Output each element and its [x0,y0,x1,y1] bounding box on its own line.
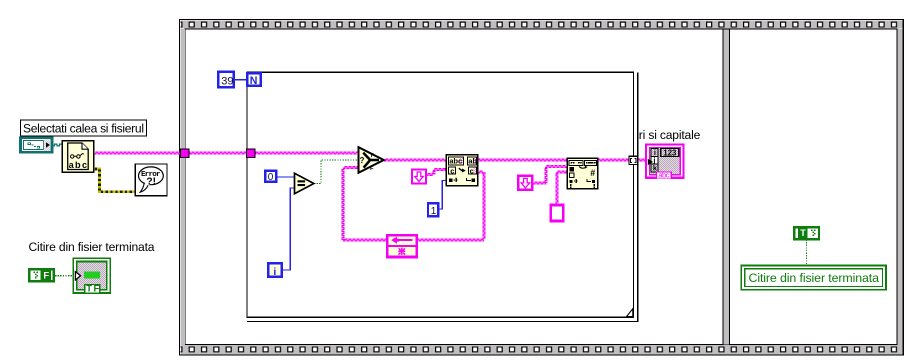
search and replace string function icon [567,158,597,188]
type-cast down-arrow node 2 [518,176,532,190]
wire: 0 constant to equal node [277,176,294,178]
wire: feedback loop bottom [343,239,484,241]
svg-text:123: 123 [663,148,677,157]
boolean indicator: Citire din fisier terminata (frame 2) [741,265,886,289]
svg-text:T: T [86,283,92,294]
for loop folded corner [627,309,633,317]
wire: i terminal to equal node [283,188,294,270]
wire: down-arrow 1 to replace substring [426,174,434,176]
svg-text:abc: abc [658,171,669,180]
simple error handler VI icon [135,164,167,196]
empty string constant [551,205,563,221]
for loop frame [247,72,638,321]
svg-text:c: c [450,166,454,175]
wire: F constant to local variable, green dotted [55,275,74,277]
svg-text:F: F [94,283,100,294]
svg-text:Citire din fisier terminata: Citire din fisier terminata [749,271,880,285]
svg-text:abc: abc [449,157,462,166]
svg-text:abc: abc [69,160,88,170]
numeric constant 39 [218,72,234,88]
svg-text:F: F [43,270,49,280]
tunnel on for loop right border, indexing [] [629,156,638,164]
svg-text:ri si capitale: ri si capitale [639,128,701,142]
wire: 39 to N count terminal, blue [235,80,446,270]
path control terminal [21,138,53,152]
for loop iteration terminal i [268,263,281,278]
svg-text:0: 0 [268,172,274,183]
wire: path wire control to read file, teal zigzag [52,144,62,146]
numeric constant 1 [428,203,438,217]
wire: 1 constant to replace substring [438,181,446,210]
wire: feedback loop into select f input [343,167,358,169]
svg-text:F: F [370,166,374,172]
boolean True constant (frame 2) [794,227,819,239]
left border band [180,29,185,346]
wire: replace-substring output down to feedback loop [478,171,484,173]
svg-text:T: T [370,153,374,159]
svg-text:N: N [250,75,258,87]
svg-text:i: i [273,266,276,278]
for loop count terminal N [247,73,260,87]
boolean False constant [29,269,54,281]
svg-text:c: c [470,166,474,175]
svg-text:?!: ?! [146,177,156,188]
svg-text:1: 1 [431,206,437,217]
wire: error cluster wire to error handler, olive dashed [94,169,136,192]
replace substring function icon [446,155,477,186]
wire: main string wire (read file to select), magenta [94,152,648,241]
label: Selectati calea si fisierul [21,120,147,136]
wire: boolean equal-to-select, green dotted [55,160,807,276]
numeric constant 0 [265,171,276,183]
svg-text:39: 39 [221,75,233,87]
svg-text:?: ? [360,156,365,165]
wire: down-arrow 2 to search replace [533,182,546,184]
svg-text:T: T [800,228,806,238]
equal? comparison node [295,173,314,193]
tunnel on for loop left border (string) [246,149,255,158]
tunnel on sequence left border (string) [180,149,189,158]
top film-strip band [180,20,902,28]
svg-text:Citire din fisier terminata: Citire din fisier terminata [29,240,155,254]
wire: feedback loop left vertical [342,168,344,241]
string/number indicator terminal (i j k 123 abc) [646,144,684,179]
wire: string wire select output to indicator [384,159,648,161]
frame divider [722,29,723,344]
flat sequence structure border frame [180,20,904,356]
select function node [359,147,384,173]
svg-text:Selectati calea si fisierul: Selectati calea si fisierul [23,121,144,135]
read from text file VI icon [62,141,93,173]
boolean local variable: Citire din fisier terminata [73,258,110,294]
feedback node with initializer [387,235,417,257]
right border band [898,29,903,346]
wire: T constant to boolean indicator, green dotted [806,240,808,266]
type-cast down-arrow node 1 [412,170,426,184]
wire: empty string constant to search replace [556,172,558,204]
svg-text:#: # [590,168,595,178]
bottom film-strip band [180,345,902,354]
svg-text:ab: ab [468,157,477,166]
